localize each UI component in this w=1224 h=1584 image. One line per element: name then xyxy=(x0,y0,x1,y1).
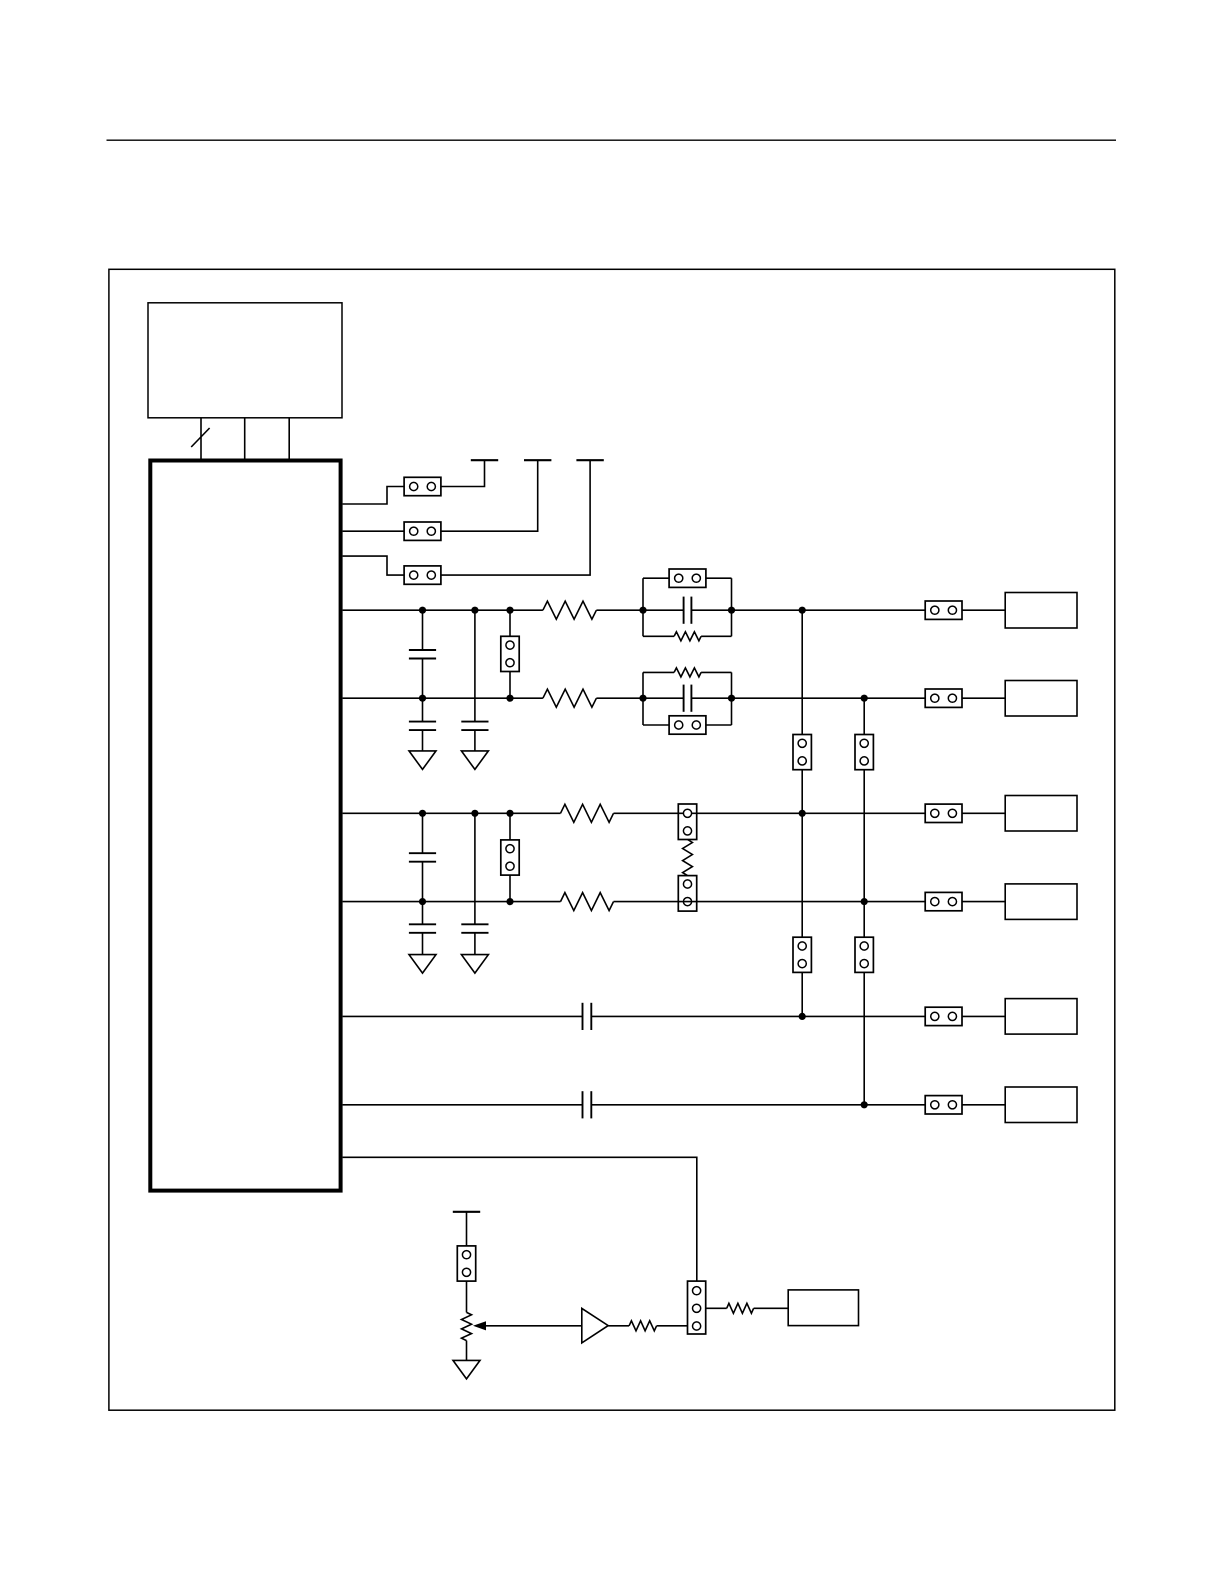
connector J3 xyxy=(1005,796,1077,832)
connector J7 xyxy=(788,1290,858,1326)
wire: network2 right vertical xyxy=(731,672,733,725)
power rail VDD2 xyxy=(524,459,551,461)
wire: C2 to ground xyxy=(422,730,424,751)
junction dots on line 2 xyxy=(419,695,868,702)
wire: JP4 vertical xyxy=(509,610,511,698)
host interface block xyxy=(148,303,342,418)
wire: U1 to JP3 xyxy=(343,556,405,575)
jumper JP4 xyxy=(501,636,519,671)
junction dot on line 5 xyxy=(799,1013,806,1020)
wire: wiper to buffer input xyxy=(484,1325,582,1327)
wire: JP3 to VDD rail 3 xyxy=(441,460,590,575)
wire: branch B (line1 to C3) xyxy=(474,610,476,721)
wire: line 3 left (U1 OUT3) xyxy=(343,812,561,814)
pins of JP10 xyxy=(683,809,691,835)
wire: branch A lower xyxy=(422,659,424,699)
jumper JP18 (bus B upper) xyxy=(855,735,873,770)
connector J1 xyxy=(1005,593,1077,629)
wire: line 4 right xyxy=(614,901,1006,903)
wire: line 5 left (U1 OUT5) xyxy=(343,1015,583,1017)
resistor R4 xyxy=(561,893,614,911)
power rail VDD1 xyxy=(471,459,498,461)
jumper JP13 (line 4) xyxy=(925,892,962,910)
wiper arrow xyxy=(473,1321,486,1330)
wire: C8 to ground xyxy=(422,933,424,955)
wire: network2 top path left xyxy=(643,671,674,673)
connector J2 xyxy=(1005,681,1077,717)
wire: buffer output to R9 xyxy=(608,1325,629,1327)
wire: network1 bottom path right xyxy=(701,635,731,637)
capacitor C8 (to ground) xyxy=(409,924,436,933)
wire: bus A (line1-line3-line5) xyxy=(801,610,803,1016)
ground xyxy=(461,751,488,770)
ground xyxy=(409,751,436,770)
buffer U2 xyxy=(582,1308,608,1343)
wire: network1 left vertical xyxy=(642,578,644,636)
jumper JP17 (bus A lower) xyxy=(793,937,811,972)
wire: line 1 middle xyxy=(596,609,683,611)
wire: C9 to ground xyxy=(474,933,476,955)
wire: branch A below line2 xyxy=(422,698,424,721)
wire: line 6 left (U1 OUT6) xyxy=(343,1104,583,1106)
wire: bus B (line2-line4-line6) xyxy=(863,698,865,1105)
ground xyxy=(453,1360,480,1379)
wire: U1 to JP1 xyxy=(343,487,405,505)
wire: network2 bottom path xyxy=(643,724,732,726)
resistor R9 xyxy=(629,1321,657,1331)
resistor R8 xyxy=(727,1303,754,1313)
resistor R6 xyxy=(674,668,701,677)
wire: branch C lower xyxy=(422,862,424,902)
wire: C3 to ground xyxy=(474,730,476,751)
connector J5 xyxy=(1005,999,1077,1035)
wire: line 2 middle xyxy=(596,697,683,699)
resistor R5 xyxy=(674,632,701,641)
wire: bus line 1 (host to U1) xyxy=(200,418,202,461)
capacitor C6 (series, line 2) xyxy=(684,685,692,712)
potentiometer VR1 xyxy=(462,1312,472,1340)
wire: line 6 right xyxy=(591,1104,1005,1106)
capacitor C11 (series, line 6) xyxy=(583,1091,592,1118)
resistor R3 xyxy=(561,804,614,822)
wire: line 2 left (U1 OUT2) xyxy=(343,697,543,699)
bus-width slash xyxy=(191,428,209,447)
wire: JP20 to VR1 xyxy=(466,1281,468,1312)
wire: bus line 2 (host to U1) xyxy=(244,418,246,461)
series header JP10 body xyxy=(678,804,696,840)
jumper JP6 xyxy=(669,716,706,734)
wire: line 1 left (U1 OUT1) xyxy=(343,609,543,611)
wire: line 2 right xyxy=(691,697,1005,699)
jumper JP3 xyxy=(404,566,441,584)
wire: R8 to J7 xyxy=(754,1307,789,1309)
wire: U1 to header JP21 xyxy=(343,1157,697,1281)
wire: JP1 to VDD rail 1 xyxy=(441,460,485,486)
jumper JP5 xyxy=(669,569,706,587)
junction dots on line 3 xyxy=(419,810,806,817)
wire: network1 top path xyxy=(643,577,732,579)
jumper JP14 (line 5) xyxy=(925,1007,962,1025)
jumper JP7 xyxy=(501,840,519,875)
wire: line 4 left (U1 OUT4) xyxy=(343,901,561,903)
wire: line 5 right xyxy=(591,1015,1005,1017)
connector J4 xyxy=(1005,884,1077,920)
wire: branch A upper xyxy=(422,610,424,650)
resistor R7 (JP10 to JP11) xyxy=(683,840,693,876)
pins of JP11 xyxy=(683,880,691,906)
wire: R9 to JP21 pin3 xyxy=(657,1325,688,1327)
jumper JP9 (line 2) xyxy=(925,689,962,707)
wire: branch D (line3 to C9) xyxy=(474,813,476,924)
wire: bus line 3 (host to U1) xyxy=(288,418,290,461)
capacitor C10 (series, line 5) xyxy=(583,1003,592,1030)
power rail VDD3 xyxy=(576,459,603,461)
capacitor C5 (series, line 1) xyxy=(684,597,692,624)
wire: JP21 pin2 to R8 xyxy=(706,1307,727,1309)
resistor R2 xyxy=(543,689,597,707)
jumper JP19 (bus B lower) xyxy=(855,937,873,972)
header JP21 (3-pin) xyxy=(688,1281,706,1334)
resistor R1 xyxy=(543,601,597,619)
wire: U1 to JP2 xyxy=(343,530,405,532)
capacitor C1 (line1-line2) xyxy=(409,650,436,659)
power rail VDD4 xyxy=(453,1211,480,1213)
codec block U1 xyxy=(150,461,340,1191)
wire: line 1 right xyxy=(691,609,1005,611)
jumper JP15 (line 6) xyxy=(925,1096,962,1114)
jumper JP12 (line 3) xyxy=(925,804,962,822)
connector J6 xyxy=(1005,1087,1077,1123)
wire: network1 right vertical xyxy=(731,578,733,636)
jumper JP16 (bus A upper) xyxy=(793,735,811,770)
wire: JP2 to VDD rail 2 xyxy=(441,460,538,531)
jumper JP20 xyxy=(457,1246,475,1281)
wire: network2 top path right xyxy=(701,671,731,673)
junction dots on line 1 xyxy=(419,607,806,614)
capacitor C3 (to ground) xyxy=(461,722,488,731)
wire: line 3 right xyxy=(614,812,1006,814)
capacitor C7 (line3-line4) xyxy=(409,853,436,862)
wire: network1 bottom path left xyxy=(643,635,674,637)
ground xyxy=(409,955,436,974)
jumper JP8 (line 1) xyxy=(925,601,962,619)
junction dots on line 4 xyxy=(419,898,868,905)
wire: branch C upper xyxy=(422,813,424,853)
wire: VR1 to ground xyxy=(466,1341,468,1361)
wire: network2 left vertical xyxy=(642,672,644,725)
capacitor C9 (to ground) xyxy=(461,924,488,933)
capacitor C2 (to ground) xyxy=(409,722,436,731)
wire: VDD4 to JP20 xyxy=(466,1212,468,1246)
junction dot on line 6 xyxy=(861,1101,868,1108)
wire: JP7 vertical xyxy=(509,813,511,901)
series header JP11 body xyxy=(678,876,696,912)
jumper JP2 xyxy=(404,522,441,540)
wire: branch C below line4 xyxy=(422,902,424,925)
jumper JP1 xyxy=(404,477,441,495)
ground xyxy=(461,955,488,974)
